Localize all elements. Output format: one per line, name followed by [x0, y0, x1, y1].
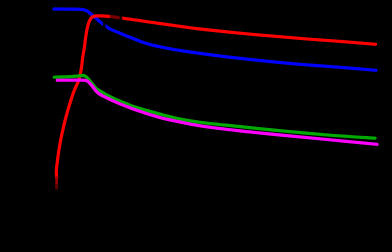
magenta curve — [57, 80, 377, 144]
blue curve — [54, 9, 376, 70]
red curve thin faded stretch x110-122 — [110, 13, 120, 20]
green curve — [54, 75, 375, 138]
blue curve small gap x103-105.5 — [103, 22, 106, 30]
red curve — [56, 16, 375, 178]
red curve dark fading tail tip — [55, 177, 58, 189]
